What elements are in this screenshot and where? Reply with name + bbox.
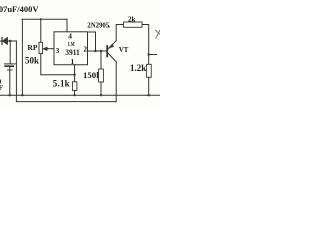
wire RP top lead: [40, 19, 42, 42]
node left vertical to rail A: [21, 94, 23, 96]
potentiometer wiper arrow to pin 3: [43, 47, 54, 51]
label 1.2k: [130, 63, 146, 73]
resistor 5.1k: [72, 82, 77, 91]
wire pin4 drop from top rail to U1: [66, 19, 68, 32]
label fragment F at left edge: [0, 83, 4, 92]
node output stub junction: [148, 53, 150, 55]
label 2N2905: [87, 22, 110, 29]
svg-text:07uF/400V: 07uF/400V: [0, 4, 39, 14]
svg-text:1.2k: 1.2k: [130, 63, 146, 73]
capacitor C1: [5, 41, 17, 95]
wire pin 2 to transistor base: [88, 50, 107, 52]
node capacitor to rail A: [9, 94, 11, 96]
wire bottom rail B: [16, 101, 116, 103]
node 5.1k to rail A: [74, 94, 76, 96]
wire 2k right to corner down: [142, 25, 149, 65]
wire top rail: [22, 18, 67, 20]
svg-text:4: 4: [68, 32, 72, 41]
label VT: [119, 47, 129, 54]
op-amp U1 LM3911 box: [54, 32, 88, 65]
capacitor value label 07uF/400V: [0, 4, 39, 14]
transistor VT 2N2905: [107, 41, 116, 62]
svg-text:2: 2: [83, 45, 87, 54]
label LM 3911: [65, 41, 80, 57]
label RP: [27, 43, 37, 52]
wire left vertical from top rail to bottom rail A: [21, 19, 23, 95]
diode VD (cut at left edge): [0, 38, 8, 45]
svg-text:2N2905: 2N2905: [87, 23, 110, 30]
wire 150k bottom lead: [100, 82, 102, 95]
wire feed line down to bottom rail B: [15, 41, 17, 102]
wire 5.1k to rail A: [74, 90, 76, 95]
resistor 2k: [124, 22, 143, 27]
wire emitter up to 2k: [116, 25, 123, 41]
svg-text:50k: 50k: [25, 56, 39, 66]
svg-text:RP: RP: [27, 43, 37, 52]
wire collector down to rail B: [115, 62, 117, 102]
wire U1 top edge extension to base-net elbow: [88, 32, 96, 51]
node pin1 / RP-bottom junction: [73, 74, 75, 76]
node 1.2k to rail A: [148, 94, 150, 96]
wire bottom rail A: [0, 94, 160, 96]
label 2k: [128, 16, 136, 24]
label 150k: [83, 70, 101, 80]
label 50k: [25, 56, 39, 66]
svg-text:5.1k: 5.1k: [53, 79, 70, 89]
svg-text:1: 1: [71, 57, 75, 66]
wire output stub: [149, 54, 157, 56]
node top rail / RP junction: [40, 18, 42, 20]
node elbow meets base wire: [94, 50, 96, 52]
wire diode anode to corner: [8, 40, 17, 42]
pin 2 label: [83, 45, 87, 54]
resistor 150k: [99, 69, 104, 82]
svg-text:VT: VT: [119, 47, 129, 54]
wire 1.2k to rail A: [148, 77, 150, 95]
svg-text:3: 3: [56, 46, 60, 55]
potentiometer RP body: [39, 42, 43, 53]
svg-text:,: ,: [108, 22, 110, 29]
pin 1 label: [71, 57, 75, 66]
wire 150k top lead: [100, 51, 102, 69]
wire pin 1 lead down: [74, 65, 76, 82]
resistor 1.2k: [147, 64, 152, 77]
node diode/capacitor junction: [9, 40, 11, 42]
partial symbol at right edge: [156, 30, 161, 38]
pin 4 label: [68, 32, 72, 41]
pin 3 label: [56, 46, 60, 55]
svg-text:F: F: [0, 83, 4, 92]
node 150k to rail A: [100, 94, 102, 96]
node 150k tap on base wire: [100, 50, 102, 52]
svg-text:3911: 3911: [65, 48, 80, 57]
label fragment 0 at left edge: [0, 77, 2, 86]
wire RP bottom lead: [41, 54, 75, 75]
label 5.1k: [53, 79, 70, 89]
